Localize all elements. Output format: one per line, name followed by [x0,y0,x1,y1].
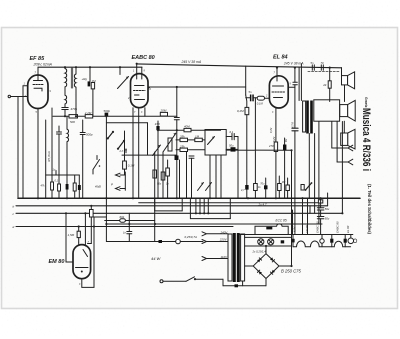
svg-text:EABC 80: EABC 80 [316,221,320,233]
svg-text:5n: 5n [311,61,314,65]
svg-text:EM 80: EM 80 [305,224,309,233]
primary tap 110V [207,258,228,260]
wire ext speaker 1 [332,147,348,149]
wire r24 stubs [329,68,331,81]
electrolytic 50u stack [317,207,324,209]
pot arrowhead [126,77,129,79]
wire EM80 left feed [66,213,73,262]
speaker 3 square [341,133,348,145]
capacitor left of T3 [57,131,62,133]
resistor x167.6 [166,168,170,176]
resistor 25k [180,148,188,151]
svg-text:0,2V: 0,2V [273,137,276,142]
tube EABC80 grid [134,90,146,92]
tube EL84 envelope [269,76,288,108]
svg-text:70: 70 [321,61,324,65]
wire Cg vertical [294,68,296,83]
svg-text:ECC 85: ECC 85 [276,219,287,223]
capacitor Cg plates [293,81,297,83]
paper speckle [0,0,1,1]
tube EABC80 cathode [135,99,145,101]
wire switch bottom row [122,154,177,156]
wire caps to bus 3 [191,158,193,198]
tube EF85 envelope [28,75,48,109]
svg-text:Graetz: Graetz [364,97,369,108]
resistor x74.7 [73,183,76,191]
svg-text:50u: 50u [157,183,162,186]
svg-text:60k: 60k [120,215,125,219]
svg-text:470p: 470p [71,107,78,111]
wire EABC right pin to M1 [148,87,150,89]
wiring box tone network [205,130,226,156]
wire T3 top [66,116,68,129]
resistor 24 vertical [328,81,331,88]
speaker tweeter box [342,76,348,85]
svg-text:44 W: 44 W [151,256,162,261]
wire feedback line [226,149,291,151]
svg-text:500: 500 [70,120,75,124]
tube EM80 deflector [83,250,88,257]
wire 50u stack link [320,198,322,208]
capacitor 500p right of T3 [80,132,85,134]
wire EF85 cathode down [37,109,39,199]
tube EABC80 diode bars [135,94,140,96]
svg-text:220V: 220V [219,238,228,242]
wire woofer down 3 [336,122,338,163]
switch on bus right [306,183,312,190]
svg-text:1M: 1M [195,135,200,139]
resistor 0,2M vertical [245,107,249,114]
svg-text:1n: 1n [123,231,126,235]
wire heater feed 2 [307,198,309,234]
svg-text:+Rg: +Rg [82,77,88,81]
wire rail R3 (speaker top rail) [246,66,342,68]
wire drop at b end [327,193,329,206]
bus cluster left: top connector [46,174,80,176]
capacitor 500p bead [105,113,109,117]
tube EM80 envelope [73,245,91,279]
capacitor 470p plates [62,107,68,109]
wire phono link [124,172,126,190]
ECC85 module outline [255,224,288,235]
tube EM80 cathode dot [81,271,83,273]
svg-text:0,4V: 0,4V [270,128,273,133]
speaker tweeter horn [348,72,355,89]
wire PSU bottom [223,285,266,287]
wire EF85 lower left pin [11,96,28,98]
IF transformer T2 core [70,68,72,88]
wire tweeter to woofer [344,85,346,102]
wire bead down [254,98,256,184]
switch AM/FM lever 1 [108,132,113,139]
svg-text:5n: 5n [249,90,252,94]
wire tone row L5 [176,149,205,151]
wire tweeter feed [341,68,343,76]
wire bus-to-c stub 1 [195,198,197,213]
svg-text:500p: 500p [86,132,93,136]
svg-text:EM 80: EM 80 [49,259,65,265]
wire line b [16,205,328,207]
wire bridge feed [265,246,267,254]
wire v163 [162,152,164,198]
fuse bead PSU bottom [235,284,239,287]
wire cap T3 stubs [58,126,60,132]
wire speaker return [341,122,343,214]
wire v154.7 [154,152,156,242]
power transformer secondary winding [241,234,245,281]
wire EM80 bottom loop [82,217,94,287]
ext speaker plug 2 [348,159,353,165]
pin digits EF85 [24,71,292,287]
resistor 1M b [195,138,203,141]
wire AVC line L2 [53,115,177,117]
svg-text:24: 24 [322,83,327,87]
wire bus-to-c stub 3 [203,198,205,213]
electrolytic bead on v67 [66,184,69,190]
wire switch line left [163,280,186,282]
wire bridge bottom [265,279,267,286]
wire switch row corner [147,123,149,155]
potentiometer bass [153,145,161,156]
svg-text:35k: 35k [180,135,185,139]
heater bead 2 [344,239,347,243]
junction bar y217 [90,216,107,218]
wire mains filter line [105,220,155,222]
tube EL84 anode bar [273,85,284,87]
wire loop2 bottom [190,218,230,220]
tube EL84 cathode [274,97,283,99]
speaker 3 horn [348,129,355,149]
wire rail R2 (245V) [137,64,246,66]
wire line d [16,226,233,228]
svg-text:25k: 25k [179,144,185,148]
resistor 1k on v255.4 [254,184,258,191]
wire EABC pin down 1 [132,108,134,199]
svg-text:110V: 110V [221,255,229,259]
wire cathode cap stubs [284,138,286,145]
pot volume arrow [163,133,176,152]
tube EL84 grid [272,91,285,93]
speaker woofer horn [348,100,356,121]
bridge diode 1 [257,258,262,263]
power transformer core bar 2 [237,233,240,282]
bead 4,7 on v246.8 [245,185,248,190]
IF transformer T2 secondary coil [74,74,76,87]
wire 500p stubs [82,120,84,133]
tube EM80 screen bar [76,267,89,269]
resistor 1M vertical [91,83,94,89]
wire secondary bottom drop [242,281,244,286]
wire EABC pin down 2 [138,108,140,199]
capacitor 40n plates [189,155,194,157]
svg-text:240V: 240V [220,230,229,234]
wire OT secondary down 1 [308,134,310,199]
wire bead down [105,116,107,241]
wire EL84 anode out [288,86,295,88]
capacitor on v59 [58,184,61,191]
heater socket circle [320,239,324,243]
wire woofer down 2 [331,122,333,149]
output transformer core bar 2 [310,101,313,134]
ECC85 coupling bead [266,227,272,230]
svg-text:4,7: 4,7 [241,189,245,192]
svg-text:EABC 80: EABC 80 [336,221,340,233]
lamp resistor [281,240,285,243]
wire coil link [64,87,66,95]
pot arrows under tone box [198,183,204,191]
resistor x287.6 [286,185,290,191]
wire secondary lamp rail top [245,236,292,238]
capacitor 0,1u plates [231,134,233,140]
resistor 1,5M [77,231,80,237]
switch band selector [93,160,100,170]
wire heater left end [292,235,294,247]
ext speaker plug 1 [348,145,353,151]
tube EF85 grid [33,84,43,86]
wire 470 to bus [157,130,159,198]
wire v176.8 lower [176,120,178,198]
wire switch row [106,122,147,124]
svg-text:470: 470 [155,122,160,126]
bead x79.3 [78,185,81,190]
fuse holder circle [176,239,181,244]
electrolytic 70u [264,185,268,189]
coil T2b lower winding [65,95,67,104]
svg-text:EF 85: EF 85 [30,56,46,62]
resistor on v163 [161,172,165,180]
wire 0,1u stubs [226,136,232,138]
wire tone row L4 [176,139,205,141]
capacitor 5n tweeter [311,65,313,70]
svg-text:245 V 38 mA: 245 V 38 mA [181,60,202,64]
capacitor 50u bead [231,147,236,151]
resistor x279.3 [278,184,282,191]
wire v238 [237,137,239,199]
wire 0,1M stubs [124,131,126,161]
resistor +Rg bead [88,81,91,86]
riser 1u [55,171,57,176]
resistor 0,1M vertical [123,161,127,169]
svg-text:2u 4,7: 2u 4,7 [258,203,267,207]
svg-text:0,1M: 0,1M [257,101,264,105]
wire sub-bus y202.8 [139,202,321,204]
bridge diode 3 [270,270,275,275]
svg-text:4,7M: 4,7M [292,122,295,128]
wire secondary lamp rail bottom [245,245,292,247]
svg-text:40dB: 40dB [95,186,101,189]
speaker woofer box [314,100,340,121]
wire line b elbow [309,206,311,214]
wire loop2 right [229,198,231,218]
wire pot feed [119,67,121,74]
ground bus [18,197,360,199]
wire EF85 grid left pin [23,86,28,199]
wire coilA top stub [64,67,66,68]
svg-text:70u: 70u [260,182,265,185]
wire EM80 grid feed [84,213,86,246]
component C8 box [318,200,322,203]
dial lamp 2 [268,239,274,245]
svg-text:500p: 500p [104,109,111,113]
bridge diode 2 [270,257,275,262]
wire v248 lower [246,115,248,199]
tube EABC80 anode bar [135,85,145,87]
wire bus-to-c stub 2 [199,198,201,213]
mains input circle [160,280,163,283]
wire 50u stubs [226,148,230,150]
wire 270 to bus [275,152,277,199]
mains switch dot [194,278,196,280]
svg-text:209V, 62mA: 209V, 62mA [33,62,53,66]
wire speaker 3 feed [343,121,345,133]
svg-text:0,1: 0,1 [230,130,234,134]
svg-text:Musica 4 R/336 i: Musica 4 R/336 i [360,108,372,171]
dashed coupling line [308,71,340,73]
wire 470 stub [157,121,159,126]
svg-text:1,5M: 1,5M [68,233,75,237]
resistor 20M [160,112,167,116]
resistor 270 cathode [274,142,277,152]
capacitor 1n mains plates [127,231,132,233]
heater bead 1 [330,239,333,243]
wire heater rail top [240,234,353,236]
svg-text:40M: 40M [184,125,190,129]
wire line L3 [158,129,221,131]
svg-text:50u: 50u [229,144,234,148]
resistor 100k grid [257,96,264,100]
wire loop1 right [181,198,183,211]
tube EABC80 envelope [131,74,149,108]
svg-text:0,25/0,7A: 0,25/0,7A [185,235,197,239]
wire loop1 bottom [155,210,183,212]
resistor on v91.3 [90,206,92,210]
IF transformer T2 primary coil [65,69,67,87]
tube EABC80 top pin 2 [141,67,143,79]
wire coil to cap [64,104,66,108]
svg-text:(1. Teil des Schaltbildes): (1. Teil des Schaltbildes) [367,184,372,234]
wire v248 upper [245,66,247,95]
bridge diode 4 [257,270,262,275]
wire EABC pin down 3 [144,108,146,117]
svg-text:270: 270 [268,144,274,148]
wire OT secondary down 2 [314,134,316,214]
svg-text:2 F 1: 2 F 1 [119,150,126,153]
svg-text:0,1: 0,1 [55,180,59,183]
resistor 60k [120,219,126,223]
wire loop1 left [154,198,156,211]
fuse bead [159,240,163,243]
svg-text:1M: 1M [92,79,97,83]
wire tuner vertical 1 [292,210,294,235]
wire bus-to-c stub 4 [207,198,209,213]
svg-text:P: P [111,182,113,186]
wire 1M down [92,89,94,116]
svg-text:EL 84: EL 84 [346,225,350,233]
dial lamp 1 [258,239,264,245]
svg-text:20M: 20M [160,109,167,113]
arrow up FM [125,149,127,153]
wire EL84 cathode down [275,108,277,142]
coil T3 winding [67,129,69,142]
wire loop2 left [189,198,191,218]
wire line y224 [106,223,322,225]
wire screen vertical [45,120,47,198]
wire ext speaker 2 [337,161,348,163]
wire fuse line [106,241,203,243]
tube EL84 top pin [276,68,278,81]
tube EF85 cathode [34,88,42,91]
resistor 40M [184,128,191,131]
svg-text:2x 0,25/1,4: 2x 0,25/1,4 [252,250,267,254]
wire T3 bottom [66,142,68,199]
wire switch line right [196,278,224,280]
svg-text:EABC 80: EABC 80 [132,55,155,61]
output transformer core bar 1 [306,101,309,134]
wire grid stub [265,97,270,99]
capacitor grid bead EL84 [250,95,252,102]
wire signal line M1 [148,86,246,88]
resistor on v154.7 [153,170,157,178]
svg-text:6,3V: 6,3V [294,227,297,232]
svg-text:EL 84: EL 84 [273,55,288,61]
output transformer primary winding [303,101,306,132]
wire heater feed 1 [302,198,304,234]
wire switch to trafo [222,279,224,285]
power transformer core bar 1 [233,233,236,282]
bridge rectifier diamond [253,254,279,279]
power transformer primary winding [228,234,232,281]
wire caps to bus 2 [186,152,188,199]
wire suppressor vertical [51,108,53,198]
svg-text:0,2M: 0,2M [237,109,244,113]
svg-text:3/5,7mA: 3/5,7mA [47,151,51,162]
tube EABC80 top pin 1 [136,64,138,79]
wire 1,5M stubs [78,227,80,232]
heater end circle [348,238,354,244]
wire v176.8 upper [176,87,178,118]
resistor 500 ohm [69,115,78,118]
wire 1n stubs [128,213,130,231]
heater chain bottom [293,241,351,247]
svg-text:0,1M: 0,1M [128,164,135,168]
tube EF85 anode bar [34,80,43,82]
svg-text:245 V 38 mA: 245 V 38 mA [283,62,304,66]
potentiometer volume [168,138,172,151]
mains switch lever [186,277,195,282]
wire OT primary feed [298,68,300,101]
phono jack lower [116,187,126,191]
capacitor on feedback column [292,127,298,129]
svg-text:50u: 50u [325,207,330,211]
wire line c [16,212,342,214]
capacitor coupling plates on v176.8 [174,117,179,119]
wire B+ drop [300,64,302,101]
wire bridge right B+ [279,265,292,267]
wire Rg stub [89,67,91,81]
wire B+ riser [291,150,293,266]
resistor 35k [180,138,188,141]
capacitor 1n tweeter [320,65,322,70]
capacitor cathode bead [283,145,286,151]
svg-text:50u: 50u [325,217,330,221]
primary tap 220V [207,241,228,243]
wire box bottom drops [209,155,211,198]
wire cap to AVC [64,110,66,117]
wire bridge left [245,265,254,267]
small box on v302.5 [301,185,304,191]
wire coilB top stub [75,67,77,74]
resistor 47k on v52 [51,182,54,190]
